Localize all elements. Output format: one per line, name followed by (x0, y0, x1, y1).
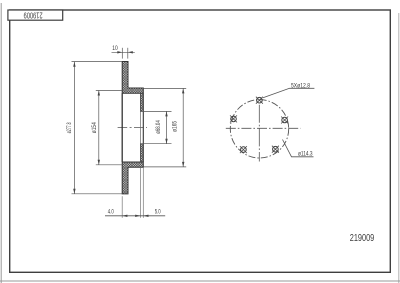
svg-text:5Xø12.8: 5Xø12.8 (291, 82, 310, 89)
svg-text:4.0: 4.0 (108, 209, 114, 216)
svg-text:10: 10 (112, 45, 118, 52)
svg-text:5.0: 5.0 (155, 209, 161, 216)
svg-text:ø277.8: ø277.8 (66, 122, 73, 133)
svg-text:219009: 219009 (350, 233, 375, 244)
svg-text:ø68.04: ø68.04 (155, 120, 162, 134)
svg-text:ø114.3: ø114.3 (298, 151, 313, 158)
svg-text:219009: 219009 (23, 10, 42, 19)
svg-text:ø165: ø165 (172, 121, 179, 132)
svg-text:ø154: ø154 (91, 122, 98, 133)
